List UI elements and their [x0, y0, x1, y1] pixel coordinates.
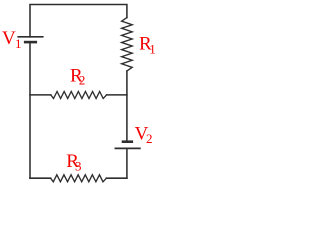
- svg-text:V: V: [2, 28, 16, 49]
- resistor R1: [122, 18, 133, 71]
- wire middle left: [30, 94, 51, 96]
- battery V1: [17, 36, 43, 38]
- wire right rail below V2: [126, 148, 128, 178]
- resistor R3: [51, 175, 107, 182]
- wire bottom left: [30, 177, 51, 179]
- resistor R2: [51, 92, 107, 99]
- wire top: left rail top, across top, down to R1 stub: [30, 5, 127, 37]
- svg-text:2: 2: [79, 73, 86, 88]
- svg-text:1: 1: [15, 36, 22, 51]
- svg-text:1: 1: [149, 42, 156, 57]
- wire middle right: [107, 94, 127, 96]
- svg-text:2: 2: [146, 131, 153, 146]
- wire right rail between R1 and V2: [126, 71, 128, 142]
- wire bottom right: [106, 177, 127, 179]
- svg-text:3: 3: [75, 159, 82, 174]
- wire left rail below V1: [29, 42, 31, 178]
- battery V2: [122, 140, 133, 143]
